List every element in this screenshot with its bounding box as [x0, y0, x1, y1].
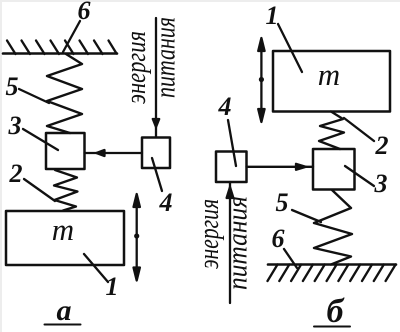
box 4 converter (fig b)	[216, 152, 247, 183]
down arrowhead on supply line (fig a)	[153, 119, 159, 127]
svg-text:4: 4	[218, 92, 232, 121]
svg-text:энергия: энергия	[193, 199, 225, 269]
spring 2 (fig a, lower spring)	[54, 170, 78, 211]
svg-text:1: 1	[266, 1, 279, 30]
motion double arrow (fig b)	[258, 38, 264, 122]
underline of sub-label a	[45, 324, 81, 326]
svg-text:3: 3	[8, 111, 22, 140]
pointer line to mass from label 1 (fig b)	[278, 24, 302, 72]
arrow from box 4 to box 3 (fig a)	[85, 150, 143, 156]
svg-text:m: m	[318, 57, 340, 92]
power energy supply line (fig a)	[155, 18, 157, 137]
box 3 actuator (fig a)	[46, 133, 85, 169]
svg-text:2: 2	[375, 131, 389, 160]
pointer line to box 3 (fig b)	[345, 166, 374, 186]
pointer line to spring 2 (fig a)	[24, 179, 55, 201]
box 4 converter (fig a)	[142, 138, 170, 169]
pointer line to box 4 (fig b)	[228, 120, 236, 166]
motion double arrow (fig a)	[134, 194, 140, 281]
scan edge tint left	[0, 0, 2, 332]
box 3 actuator (fig b)	[313, 149, 355, 190]
svg-text:энергия: энергия	[120, 31, 152, 104]
svg-text:б: б	[327, 293, 346, 330]
mass box m (fig b)	[273, 51, 390, 112]
pointer line to box 4 (fig a)	[152, 158, 162, 191]
svg-text:5: 5	[276, 188, 289, 217]
mass box m (fig a)	[6, 211, 124, 265]
spring 2 (fig b, upper spring)	[319, 112, 344, 150]
svg-text:питания: питания	[222, 196, 254, 290]
up arrowhead on supply line (fig b)	[227, 187, 234, 198]
ceiling line (fig a)	[3, 52, 117, 55]
arrow from box 4 to box 3 (fig b)	[247, 164, 314, 170]
svg-text:m: m	[52, 212, 74, 247]
pointer line to box 3 (fig a)	[23, 129, 58, 150]
pointer line to spring 5 (fig b)	[292, 210, 321, 222]
svg-text:1: 1	[106, 272, 119, 301]
spring 5 (fig b, lower spring)	[314, 190, 352, 265]
svg-text:6: 6	[272, 224, 285, 253]
svg-text:питания: питания	[150, 17, 182, 98]
underline of sub-label b	[314, 326, 350, 328]
pointer line to ground from label 6 (fig b)	[284, 249, 297, 268]
svg-text:4: 4	[159, 188, 173, 217]
pointer line to spring 2 (fig b)	[344, 118, 374, 141]
power energy supply line (fig b)	[229, 182, 231, 303]
ground line (fig b)	[268, 263, 396, 266]
svg-text:3: 3	[374, 169, 388, 198]
ceiling hatch (fig a)	[7, 41, 117, 55]
svg-text:а: а	[57, 294, 72, 327]
svg-text:5: 5	[6, 72, 19, 101]
pointer line to mass from label 1 (fig a)	[84, 254, 108, 282]
ground hatch (fig b)	[268, 265, 396, 282]
spring 5 (fig a, upper spring)	[47, 54, 82, 133]
pointer line to ceiling from label 6 (fig a)	[63, 21, 80, 52]
pointer line to spring 5 (fig a)	[19, 89, 49, 103]
svg-text:2: 2	[9, 159, 23, 188]
scan edge tint top	[0, 0, 400, 2]
